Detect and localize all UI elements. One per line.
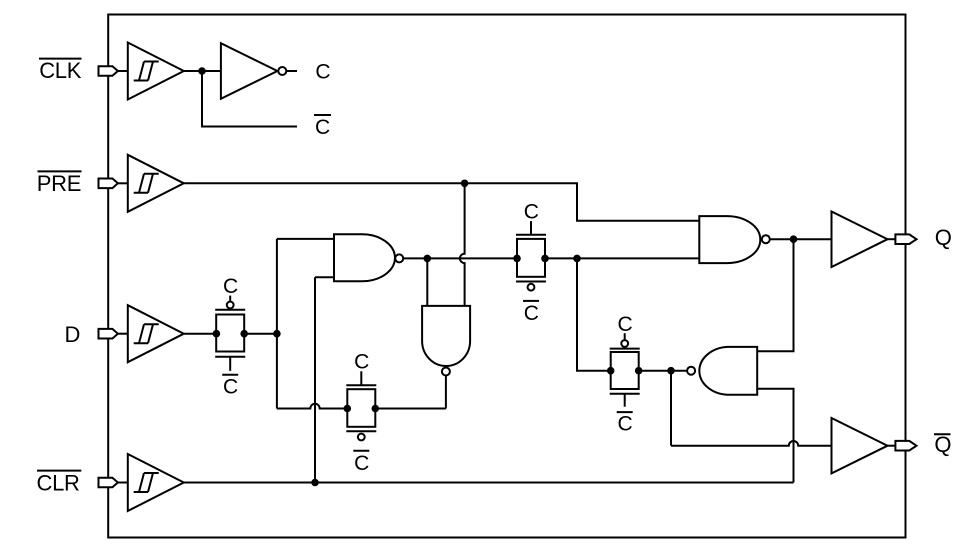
wire vertical node A xyxy=(276,239,278,409)
wire CLR buffer out xyxy=(184,482,794,484)
svg-text:C: C xyxy=(618,413,633,436)
node TG1 right xyxy=(240,330,248,338)
nand U6 (slave, left-pointing) xyxy=(687,347,757,395)
svg-text:PRE: PRE xyxy=(37,171,81,196)
node TG4 left xyxy=(607,367,615,375)
wire TG1 out to node xyxy=(244,333,277,335)
wire NAND U2 top input xyxy=(277,238,334,240)
svg-text:C: C xyxy=(524,302,539,325)
wire to QB buffer with hop xyxy=(671,441,832,446)
wire NAND U6 node down xyxy=(670,371,672,446)
node D feedback xyxy=(273,330,281,338)
node TG1 left xyxy=(213,330,221,338)
wire CLK buffer out xyxy=(184,70,221,72)
wire TG4 out to NAND U6 xyxy=(639,370,687,372)
wire NAND U2 output to TG3 xyxy=(403,257,517,259)
svg-text:Q: Q xyxy=(935,225,952,250)
wire PRE pin to buffer xyxy=(118,182,129,184)
node CLR line xyxy=(311,479,319,487)
node master out xyxy=(573,255,581,263)
wire NAND U2 out to NAND U3 input xyxy=(426,258,428,306)
node NAND U2 out xyxy=(424,255,432,263)
pin CLK xyxy=(99,66,118,76)
pin QB xyxy=(895,441,916,451)
pin D xyxy=(99,329,118,339)
node PRE line xyxy=(461,180,469,188)
svg-text:C: C xyxy=(524,201,539,224)
wire TG2 to NAND U3 output xyxy=(375,408,446,410)
svg-text:C: C xyxy=(315,61,330,84)
svg-text:C: C xyxy=(354,351,369,374)
wire Q buffer to pin xyxy=(888,238,896,240)
svg-text:D: D xyxy=(65,322,81,347)
output buffer Q xyxy=(832,212,888,268)
wire CLK pin to buffer xyxy=(118,70,129,72)
transmission gate TG1 (D input) xyxy=(215,296,245,371)
schmitt buffer U4 (CLR) xyxy=(128,454,184,511)
pin Q xyxy=(895,234,916,244)
node TG2 left xyxy=(344,405,352,413)
svg-text:C: C xyxy=(223,376,238,399)
svg-text:C: C xyxy=(618,313,633,336)
transmission gate TG3 (master to slave) xyxy=(516,221,546,291)
wire inverter out to C xyxy=(286,70,297,72)
node TG3 right xyxy=(541,255,549,263)
wire NAND U6 bottom input xyxy=(757,389,793,483)
svg-text:Q: Q xyxy=(934,432,951,457)
wire PRE buffer out xyxy=(184,182,578,184)
output buffer QB xyxy=(832,418,888,473)
transmission gate TG4 (slave feedback) xyxy=(610,333,640,407)
nand U3 (vertical, master reset) xyxy=(422,306,470,376)
node NAND U6 out xyxy=(667,367,675,375)
schmitt buffer U2 (PRE) xyxy=(128,155,184,212)
inverter U1A xyxy=(221,43,286,99)
node CLK buffer out xyxy=(198,67,206,75)
svg-text:CLR: CLR xyxy=(37,470,80,495)
chip boundary xyxy=(108,15,905,538)
node TG2 right xyxy=(372,405,380,413)
node TG3 left xyxy=(513,255,521,263)
node TG4 right xyxy=(635,367,643,375)
pin PRE xyxy=(99,179,118,189)
pin CLR xyxy=(99,478,118,488)
wire NAND U2 bottom input xyxy=(315,276,334,278)
node Q internal xyxy=(790,235,798,243)
svg-text:C: C xyxy=(315,116,330,139)
wire node to TG4 xyxy=(577,258,611,370)
wire CLR pin to buffer xyxy=(118,482,129,484)
wire bottom feedback with hop xyxy=(277,404,347,409)
wire PRE jog to NAND U5 top input xyxy=(577,183,699,220)
svg-text:C: C xyxy=(354,452,369,475)
wire D pin to buffer xyxy=(118,333,129,335)
wire node down from CLK dot xyxy=(202,71,297,127)
svg-text:CLK: CLK xyxy=(39,58,82,83)
wire D buffer out to TG1 xyxy=(184,333,216,335)
nand U2 (master) xyxy=(334,234,403,281)
wire NAND U3 output down xyxy=(445,376,447,409)
wire NAND U6 top input xyxy=(757,239,793,351)
wire NAND U5 output to Q buffer xyxy=(770,238,832,240)
wire QB buffer to pin xyxy=(888,445,896,447)
nand U5 (output Q) xyxy=(699,216,770,263)
wire TG3 out to NAND U5 bottom input xyxy=(545,257,699,259)
wire vertical CLR to NAND U2 xyxy=(314,277,316,482)
schmitt buffer U1 (CLK) xyxy=(128,43,184,100)
svg-text:C: C xyxy=(223,275,238,298)
schmitt buffer U3 (D) xyxy=(128,305,184,362)
transmission gate TG2 (feedback) xyxy=(346,371,376,440)
wire PRE to NAND U3 input with hop xyxy=(460,183,465,306)
